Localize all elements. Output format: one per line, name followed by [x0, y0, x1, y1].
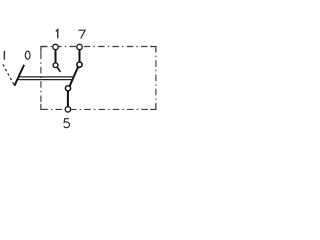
wire: post terminal 5 — [67, 89, 69, 108]
label 0 — [25, 51, 30, 59]
enclosure dash-dot border — [41, 47, 156, 110]
lever dashed (position I) — [3, 64, 14, 85]
label 1 — [56, 30, 58, 39]
label 5 — [64, 119, 70, 128]
border corner BR — [150, 104, 156, 110]
wire: mechanical link upper — [19, 76, 74, 78]
label 7 — [78, 30, 85, 38]
contact circle below 1 — [53, 63, 58, 68]
terminal 5 circle — [65, 107, 70, 112]
label I — [3, 51, 5, 60]
wire: post terminal 1 — [55, 47, 57, 64]
wire: post terminal 7 — [79, 47, 81, 63]
terminal 7 circle — [77, 44, 82, 49]
contact circle below 7 — [77, 62, 82, 67]
border corner TL — [41, 47, 48, 53]
contact tick below 1 — [57, 67, 60, 72]
contact circle above 5 — [65, 86, 70, 91]
wire: mechanical link lower — [17, 79, 72, 81]
border corner TR — [150, 47, 156, 53]
wire: moving contact 5-7 — [70, 67, 79, 87]
border corner BL — [41, 104, 47, 110]
terminal 1 circle — [53, 44, 58, 49]
lever solid (position 0) — [14, 65, 24, 86]
